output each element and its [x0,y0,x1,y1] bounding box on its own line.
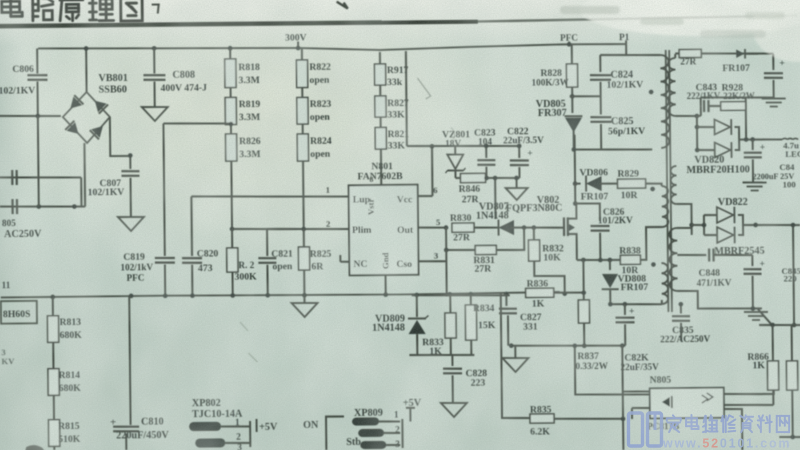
wire bridge right to C807 step [110,117,131,156]
capacitor C843 222/1KV + resistor R928 22K/2W [676,115,697,117]
watermark 家电维修资料网 icon [629,413,662,446]
capacitor C-out1 electrolytic [772,54,774,70]
capacitor C808 [152,46,157,51]
title text 电路原理图 (drawn strokes) [2,0,143,22]
wire startup line rail to Vcc node [405,51,408,146]
resistor R917 33k [379,52,381,64]
blur zone top right [420,0,800,62]
component box 8H60S [1,301,37,324]
diode VD810 FR107 [736,49,744,58]
ground below C807 [118,217,144,231]
transformer core [666,50,669,312]
resistor 27R small [679,49,701,57]
dual diode VD820 MBRF20H100 [696,116,698,150]
ground below C827 [514,346,516,358]
capacitor C826 101/2KV [575,203,600,221]
bridge rectifier VB801 SSB60 [63,92,111,143]
op-amp IC N801 FAN7602B box [349,185,419,276]
resistor R821 33K [380,117,382,127]
resistor R813 680K [52,297,54,316]
wire pin2 line [232,228,349,230]
wire PFC tap from 3.3M chain [163,123,231,124]
capacitor C821 open [266,229,268,256]
wire bottom right corner [779,436,800,438]
wire R866 top net [759,324,800,327]
wire aux winding B bottom line [610,304,662,305]
capacitor C823 104 [485,146,487,158]
wire +V line down right edge [793,225,794,325]
capacitor C835 222/AC250V Y-cap [680,304,682,313]
diode VD807 1N4148 [474,226,498,229]
IC ground pin to bus [385,275,387,295]
ground below C822 [516,178,518,188]
IC NC stub [340,261,349,263]
wire AC input top [0,115,61,116]
diode VD805 FR307 [571,87,573,96]
capacitor C848 471/1KV [677,254,706,257]
capacitor C810 220uF/450V [129,296,130,425]
wire S3 bottom ground line [678,290,762,309]
diode VD808 FR107 [609,260,611,270]
wire R824 bottom to C821/R825 node [302,161,305,229]
transformer primary winding [660,55,669,148]
resistor R829 10R [618,179,646,188]
capacitor C807 [129,156,131,169]
capacitor C820 473 [190,196,193,255]
resistor R825 6R [303,229,305,247]
wire snubber bottom to primary [574,149,652,151]
resistor R819 3.3M [230,88,232,98]
wire diagonal [758,309,771,324]
wire R835 to optocoupler [554,418,623,419]
wire cso bus [412,294,510,296]
ground symbol below bus [303,295,305,303]
wire IC pin3 Cso [418,260,446,263]
resistor R838 10R [620,255,640,264]
resistor R824 open [302,124,304,134]
capacitor C827 331 [505,294,507,306]
capacitor C824 102/1KV [625,44,627,55]
node +5V XP802 [256,419,258,432]
resistor R834 15K [470,294,472,305]
capacitor C819 102/1KV [155,257,175,260]
resistor R826 3.3M [230,125,232,134]
capacitor C841 electrolytic [752,140,754,150]
secondary winding S1 [668,58,676,116]
watermark text 家电维修资料网 [667,415,789,432]
wire IC pin6 to Vcc net [418,195,433,197]
wire R866 bottom to opto [724,404,774,405]
resistor R823 open [301,88,303,98]
wire chain into IC Vstr pin [380,149,382,185]
capacitor C-out2 electrolytic [751,255,753,266]
resistor R828 100K/3W [571,44,573,64]
wire chain to IC pin2 [230,161,233,229]
capacitor C82K 22uF/35V electrolytic [624,304,626,315]
resistor R867 b [791,325,793,361]
wire bridge bottom loop / AC lower lines [83,143,86,207]
resistor R833 1K [449,294,451,313]
dark smudge bottom left [24,445,46,450]
transistor V802 FQPF3N80C MOSFET [563,217,565,236]
ground hatch below C841 [743,181,767,184]
resistor R866 1K a [772,325,774,361]
wire C821/R825 top node [267,228,304,231]
secondary winding S3 [669,228,677,291]
resistor R832 10K [533,228,535,240]
wire Vcc horizontal net [407,145,519,147]
wire opto lower-left pin [632,407,650,409]
resistor R837 0.33/2W [578,300,589,323]
wire mid line to opto [575,345,674,403]
wire S1 top output rail [675,52,773,54]
zener VZ801 18V [454,146,456,154]
dual diode VD822 MBRF2545 [677,204,692,235]
resistor R815 510K [53,395,55,419]
aux winding A [662,186,669,227]
wire VD820 output [739,138,782,141]
ground below C808 [142,107,168,121]
resistor R846 27R [460,173,485,182]
ground below C828 [441,403,467,417]
faint pencil marks [417,78,430,99]
resistor R827 33K [379,85,381,96]
ground hatch below out1 [762,97,786,100]
wire to IC pin1 [191,195,348,198]
wire 300V top rail [38,42,626,53]
capacitor C805a (X-cap) [11,170,13,185]
capacitor C805b (X-cap) [11,199,13,214]
wire VD822 output rail [743,224,800,225]
resistor R814 680K [52,342,54,368]
stray pen mark top [337,2,348,9]
resistor R836 1K [526,288,554,297]
inductor L 4.7uH [782,138,798,139]
resistor R812 300K [231,229,233,248]
wire opto right pins [724,390,774,395]
wire R838 to aux winding A bottom [640,227,662,260]
resistor R831 27R [445,228,447,250]
diode VD806 FR107 [573,181,578,186]
capacitor C825 56p/1KV [600,96,602,114]
aux winding B [661,263,668,304]
capacitor C806 [36,49,38,74]
capacitor C828 223 [451,355,453,366]
secondary winding S2 [671,166,677,204]
ground hatch S3 [744,311,768,314]
wire bottom of sense network [409,354,474,355]
wire aux to opto top pin [622,345,649,391]
resistor R830 27R [452,223,474,232]
wire IC pin5 Out [418,226,446,229]
wire low aux gnd line [511,344,625,346]
resistor R822 open [301,48,303,60]
small mark after title [152,5,159,14]
wire gate line [524,226,564,229]
diode VD809 1N4148 zener [416,295,418,317]
optocoupler N805 [650,388,724,419]
resistor R835 6.2K [530,414,554,423]
wire main ground bus [1,292,560,299]
capacitor C822 22uF/3.5V electrolytic [518,146,520,158]
wire drain chain [574,135,577,204]
title underline rule [0,21,478,26]
resistor R818 3.3M [228,46,233,51]
wire R829 to aux winding A top [646,183,662,186]
wire source node line [577,259,621,262]
wire bus to R835 line [501,294,530,419]
